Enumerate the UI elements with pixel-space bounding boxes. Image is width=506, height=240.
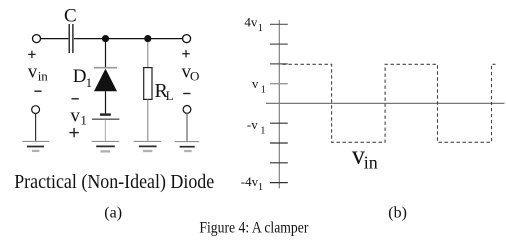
ground (battery): [92, 140, 120, 142]
output minus sign: [183, 93, 190, 95]
wire input terminal to capacitor: [41, 38, 68, 40]
node junction dot (resistor branch): [144, 35, 151, 42]
svg-text:L: L: [166, 88, 174, 103]
svg-text:Figure 4: A clamper: Figure 4: A clamper: [199, 219, 309, 236]
tick 3v1: [270, 43, 288, 45]
graph vertical axis: [278, 20, 280, 188]
svg-text:(a): (a): [104, 204, 122, 221]
battery v1 short plate (minus, top): [100, 113, 111, 115]
ground (output): [175, 141, 200, 143]
svg-text:1: 1: [261, 85, 266, 96]
battery plus sign: [69, 132, 78, 134]
wire diode to battery: [105, 91, 107, 113]
diode D1 triangle: [94, 69, 117, 92]
output terminal (top right open circle): [183, 35, 191, 43]
svg-text:in: in: [364, 153, 378, 173]
tick -2v1: [270, 142, 288, 144]
wire capacitor to output terminal: [74, 38, 183, 40]
ground (resistor): [134, 140, 162, 142]
capacitor C plates: [68, 24, 70, 53]
svg-text:-4v: -4v: [241, 174, 259, 189]
svg-text:4v: 4v: [244, 15, 258, 30]
svg-text:(b): (b): [388, 204, 407, 221]
svg-text:v: v: [28, 61, 38, 82]
wire output terminal to ground: [186, 113, 188, 140]
svg-text:-v: -v: [247, 117, 258, 132]
wire resistor to ground: [147, 99, 149, 140]
square wave vin (dashed): [283, 64, 496, 142]
output plus sign: [182, 53, 189, 55]
tick 4v1: [270, 23, 288, 25]
resistor RL box: [144, 68, 152, 100]
svg-text:D: D: [73, 66, 87, 87]
node junction dot (diode branch): [102, 35, 109, 42]
svg-text:Practical (Non-Ideal) Diode: Practical (Non-Ideal) Diode: [14, 171, 214, 193]
svg-text:1: 1: [86, 75, 93, 90]
input plus sign: [28, 53, 35, 55]
svg-text:in: in: [38, 68, 49, 83]
tick 2v1: [270, 63, 288, 65]
tick v1: [270, 83, 288, 85]
wire battery to ground: [104, 120, 106, 141]
svg-text:O: O: [190, 69, 199, 84]
output lower terminal circle: [183, 106, 191, 114]
wire node to resistor: [147, 42, 149, 68]
tick -3v1: [270, 162, 288, 164]
tick -4v1: [270, 182, 288, 184]
svg-text:v: v: [252, 76, 259, 91]
svg-text:C: C: [64, 6, 77, 27]
tick -v1: [270, 122, 288, 124]
input lower terminal circle: [32, 106, 40, 114]
svg-text:1: 1: [260, 126, 265, 137]
wire input terminal to ground: [35, 114, 37, 141]
svg-text:v: v: [70, 105, 80, 126]
input terminal (top left open circle): [33, 35, 41, 43]
graph horizontal axis: [266, 102, 505, 104]
svg-text:1: 1: [258, 23, 263, 34]
svg-text:1: 1: [258, 182, 263, 193]
input minus sign: [34, 90, 41, 92]
svg-text:1: 1: [80, 112, 87, 127]
wire node to diode: [105, 39, 107, 68]
battery minus sign: [72, 98, 79, 100]
ground (input): [22, 140, 49, 142]
diode D1 cathode bar: [94, 67, 117, 69]
battery v1 long plate (plus, bottom): [92, 118, 120, 120]
